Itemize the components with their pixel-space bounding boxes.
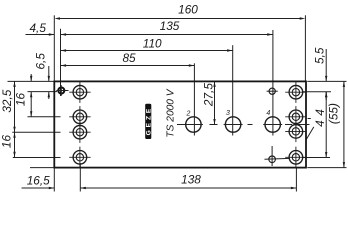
svg-text:110: 110 xyxy=(143,36,162,50)
svg-text:135: 135 xyxy=(160,19,180,33)
svg-text:44: 44 xyxy=(313,105,327,127)
svg-text:16: 16 xyxy=(0,135,14,149)
svg-text:16: 16 xyxy=(14,93,28,107)
svg-text:160: 160 xyxy=(178,3,198,17)
svg-text:6,5: 6,5 xyxy=(34,53,48,70)
svg-text:4: 4 xyxy=(266,110,270,117)
svg-text:TS 2000 V: TS 2000 V xyxy=(166,88,177,137)
svg-text:138: 138 xyxy=(181,172,201,186)
svg-text:5,5: 5,5 xyxy=(313,47,327,64)
svg-text:2: 2 xyxy=(186,111,191,118)
svg-text:85: 85 xyxy=(122,51,136,65)
svg-text:GEZE: GEZE xyxy=(145,106,152,136)
svg-text:(55): (55) xyxy=(327,103,341,124)
svg-text:32,5: 32,5 xyxy=(0,89,14,112)
svg-text:3: 3 xyxy=(226,110,230,117)
svg-text:16,5: 16,5 xyxy=(27,173,50,187)
svg-text:4,5: 4,5 xyxy=(29,21,46,35)
svg-text:27,5: 27,5 xyxy=(201,83,215,107)
